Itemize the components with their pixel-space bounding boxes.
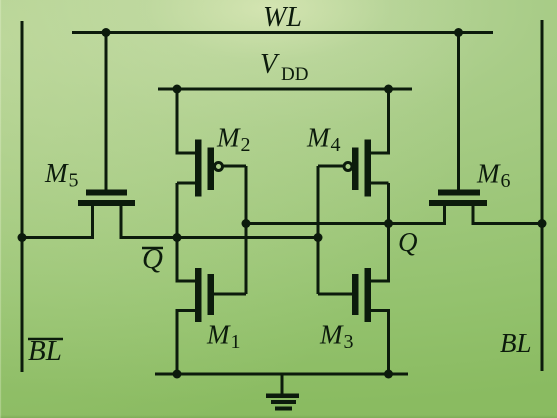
svg-text:DD: DD [281,64,308,85]
svg-text:6: 6 [501,170,511,192]
wire left inverter drain column (M2 to M1 through Qbar) [177,89,195,281]
svg-text:M: M [44,158,69,188]
ground bar 2 [271,400,296,404]
wire M6 gate column from WL [457,33,460,190]
wire cross-couple vertical to M2/M1 gates [245,166,248,294]
ground bar 3 [275,407,292,411]
svg-text:Q: Q [398,227,418,257]
svg-text:5: 5 [69,170,79,192]
transistor M1 channel bar [195,268,202,322]
wire BL-bar bit line (left vertical) [21,21,24,372]
junction dot BL-Q [538,219,547,228]
ground stub [281,374,284,394]
wire node Q horizontal right segment [472,222,543,225]
ground bar 1 [266,394,299,399]
junction dot M3-ground [384,370,393,379]
wire M1 gate lead [214,293,246,296]
wire BL bit line (right vertical) [541,20,544,371]
junction dot BLbar-Qbar [18,233,27,242]
transistor M1 gate bar [208,274,215,315]
svg-text:M: M [476,159,501,189]
wire M6 source terminal [443,205,446,224]
svg-text:BL: BL [500,328,532,358]
transistor M3 gate bar [352,274,359,315]
junction dot Qbar-crosscouple [314,233,323,242]
transistor M5 gate bar [86,190,127,196]
junction dot node Qbar [173,233,182,242]
transistor M4 gate bubble [344,163,352,171]
svg-text:M: M [206,320,231,350]
svg-text:2: 2 [241,134,251,156]
wire M6 drain terminal [472,205,475,224]
transistor M3 channel bar [365,268,372,322]
transistor M6 channel bar [429,200,487,206]
wire cross-couple vertical to M4/M3 gates [317,166,320,294]
wire WL word line (top horizontal) [72,31,493,34]
wire M3 source column to ground [371,311,389,375]
transistor M2 channel bar [195,140,202,197]
junction dot WL-M6 [454,28,463,37]
svg-text:M: M [306,123,331,153]
svg-text:4: 4 [331,134,341,156]
svg-text:3: 3 [344,331,354,353]
junction dot WL-M5 [102,28,111,37]
transistor M2 gate bar [208,148,215,191]
junction dot VDD-M4 [384,85,393,94]
transistor M2 gate bubble [215,163,223,171]
svg-text:V: V [260,49,280,80]
wire M3 gate lead [318,293,352,296]
wire M5 drain terminal [120,205,123,238]
wire node Qbar horizontal left segment [22,236,94,239]
svg-text:M: M [216,123,241,153]
wire right inverter drain column (M4 to M3 through Q) [371,89,389,281]
wire node Q horizontal left segment [246,222,446,225]
wire VDD rail [158,88,412,91]
wire M5 source terminal [91,205,94,238]
wire M5 gate column from WL [105,33,108,190]
wire M2 gate lead [223,165,247,168]
wire ground rail [155,373,408,376]
junction dot Q-crosscouple [242,219,251,228]
wire M1 source column to ground [177,311,195,375]
transistor M4 channel bar [365,140,372,197]
junction dot VDD-M2 [173,85,182,94]
transistor M4 gate bar [352,148,359,191]
transistor M5 channel bar [78,200,135,206]
svg-text:1: 1 [231,331,241,353]
junction dot node Q [384,219,393,228]
junction dot M1-ground [173,370,182,379]
wire M4 gate lead [318,165,344,168]
svg-text:M: M [319,320,344,350]
wire node Qbar horizontal right segment [120,236,319,239]
transistor M6 gate bar [438,190,480,196]
svg-text:WL: WL [263,2,302,33]
